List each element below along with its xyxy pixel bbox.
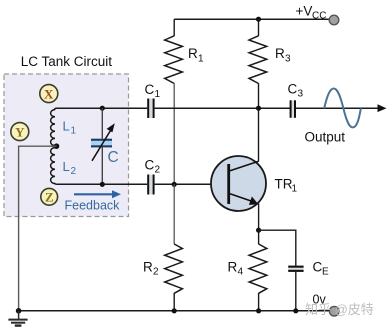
node Y xyxy=(11,123,29,141)
inductor L1 coil xyxy=(51,110,55,146)
wire C2 to transistor base xyxy=(155,183,229,185)
label R1 xyxy=(188,46,204,65)
svg-text:LC Tank Circuit: LC Tank Circuit xyxy=(21,54,113,69)
wire top rail xyxy=(174,18,330,20)
svg-text:1: 1 xyxy=(155,89,161,100)
wire bottom rail xyxy=(19,310,330,312)
svg-text:2: 2 xyxy=(153,267,159,278)
svg-text:TR: TR xyxy=(275,177,293,192)
svg-text:3: 3 xyxy=(298,89,304,100)
svg-text:3: 3 xyxy=(285,54,291,65)
resistor R2 xyxy=(165,244,183,293)
wire R3 top lead xyxy=(258,19,260,36)
label R3 xyxy=(275,46,291,65)
svg-text:1: 1 xyxy=(292,184,298,195)
node junction tank top xyxy=(100,106,105,111)
LC tank dashed box xyxy=(4,74,129,217)
svg-text:Z: Z xyxy=(45,190,54,205)
label L2 xyxy=(63,159,77,177)
label L1 xyxy=(63,119,77,137)
wire coil bottom to C2 rail corner xyxy=(55,183,147,185)
svg-text:1: 1 xyxy=(71,126,77,137)
svg-text:C: C xyxy=(288,82,298,97)
transistor TR1 xyxy=(211,156,266,211)
svg-text:1: 1 xyxy=(198,54,204,65)
wire R4 bottom lead xyxy=(258,293,260,311)
variable capacitor arrow xyxy=(92,123,115,161)
feedback arrow xyxy=(74,190,121,198)
terminal 0v xyxy=(329,306,339,316)
svg-text:Output: Output xyxy=(305,130,346,145)
svg-text:X: X xyxy=(44,86,54,101)
output arrow head xyxy=(378,104,387,112)
node junction C2 rail / R1R2 branch xyxy=(172,182,177,187)
svg-text:CC: CC xyxy=(312,11,326,22)
node junction var cap bottom xyxy=(100,182,105,187)
wire R2 branch (from C2 rail down) xyxy=(173,184,175,244)
capacitor CE xyxy=(288,266,303,272)
capacitor C2 xyxy=(147,175,154,195)
svg-text:C: C xyxy=(313,260,323,275)
node junction emitter xyxy=(256,228,261,233)
svg-text:C: C xyxy=(145,158,155,173)
label C3 xyxy=(288,82,304,100)
svg-text:L: L xyxy=(63,119,70,134)
inductor L2 coil xyxy=(51,148,55,184)
svg-text:Feedback: Feedback xyxy=(65,199,121,213)
wire R1 bottom to C2 rail (vertical through C1 rail) xyxy=(173,83,175,184)
wire middle rail left (coil top to C1) xyxy=(55,108,148,110)
label CE xyxy=(313,260,330,278)
capacitor C1 xyxy=(147,99,154,119)
svg-text:C: C xyxy=(108,149,119,166)
variable capacitor C vertical leads xyxy=(101,108,103,184)
ground xyxy=(8,311,27,326)
svg-text:2: 2 xyxy=(155,165,161,176)
label TR1 xyxy=(275,177,298,195)
wire R4 top lead xyxy=(258,230,260,244)
node junction R2 bottom xyxy=(172,308,177,313)
wire CE bottom lead xyxy=(295,272,297,311)
label R2 xyxy=(143,260,159,278)
resistor R4 xyxy=(249,244,267,293)
wire emitter down xyxy=(258,204,260,231)
wire R1 top lead xyxy=(173,19,175,36)
svg-text:R: R xyxy=(143,260,153,275)
wire R2 bottom lead xyxy=(173,293,175,311)
svg-text:E: E xyxy=(322,267,329,278)
node junction CE bottom xyxy=(293,308,298,313)
terminal +Vcc xyxy=(329,15,339,25)
svg-text:知乎 @皮特: 知乎 @皮特 xyxy=(305,302,374,317)
resistor R3 xyxy=(249,36,267,84)
label C1 xyxy=(145,82,161,100)
node X xyxy=(40,85,58,103)
node junction middle rail / collector branch xyxy=(256,106,261,111)
svg-text:C: C xyxy=(145,82,155,97)
node tap dot xyxy=(54,143,60,149)
label R4 xyxy=(228,260,244,278)
label +Vcc xyxy=(296,4,327,22)
svg-text:Y: Y xyxy=(15,124,25,139)
wire middle rail right (C1 to output) xyxy=(155,107,378,109)
label C2 xyxy=(145,158,161,176)
resistor R1 xyxy=(165,36,183,84)
svg-text:R: R xyxy=(228,260,238,275)
node junction ground xyxy=(16,308,22,314)
svg-text:2: 2 xyxy=(71,166,77,177)
node junction R4 bottom xyxy=(256,308,261,313)
svg-text:R: R xyxy=(188,46,198,61)
capacitor C3 xyxy=(290,100,296,118)
svg-text:4: 4 xyxy=(238,267,244,278)
variable capacitor C plates xyxy=(91,139,112,148)
output sine wave xyxy=(324,89,361,128)
wire tap to left rail down xyxy=(19,146,57,311)
svg-text:R: R xyxy=(275,46,285,61)
wire R3 bottom to collector xyxy=(258,83,260,161)
node Z xyxy=(41,188,58,205)
svg-text:L: L xyxy=(63,159,70,174)
svg-text:+V: +V xyxy=(296,4,313,19)
node junction top rail / R3 xyxy=(256,17,261,22)
wire emitter to CE branch xyxy=(259,230,296,266)
